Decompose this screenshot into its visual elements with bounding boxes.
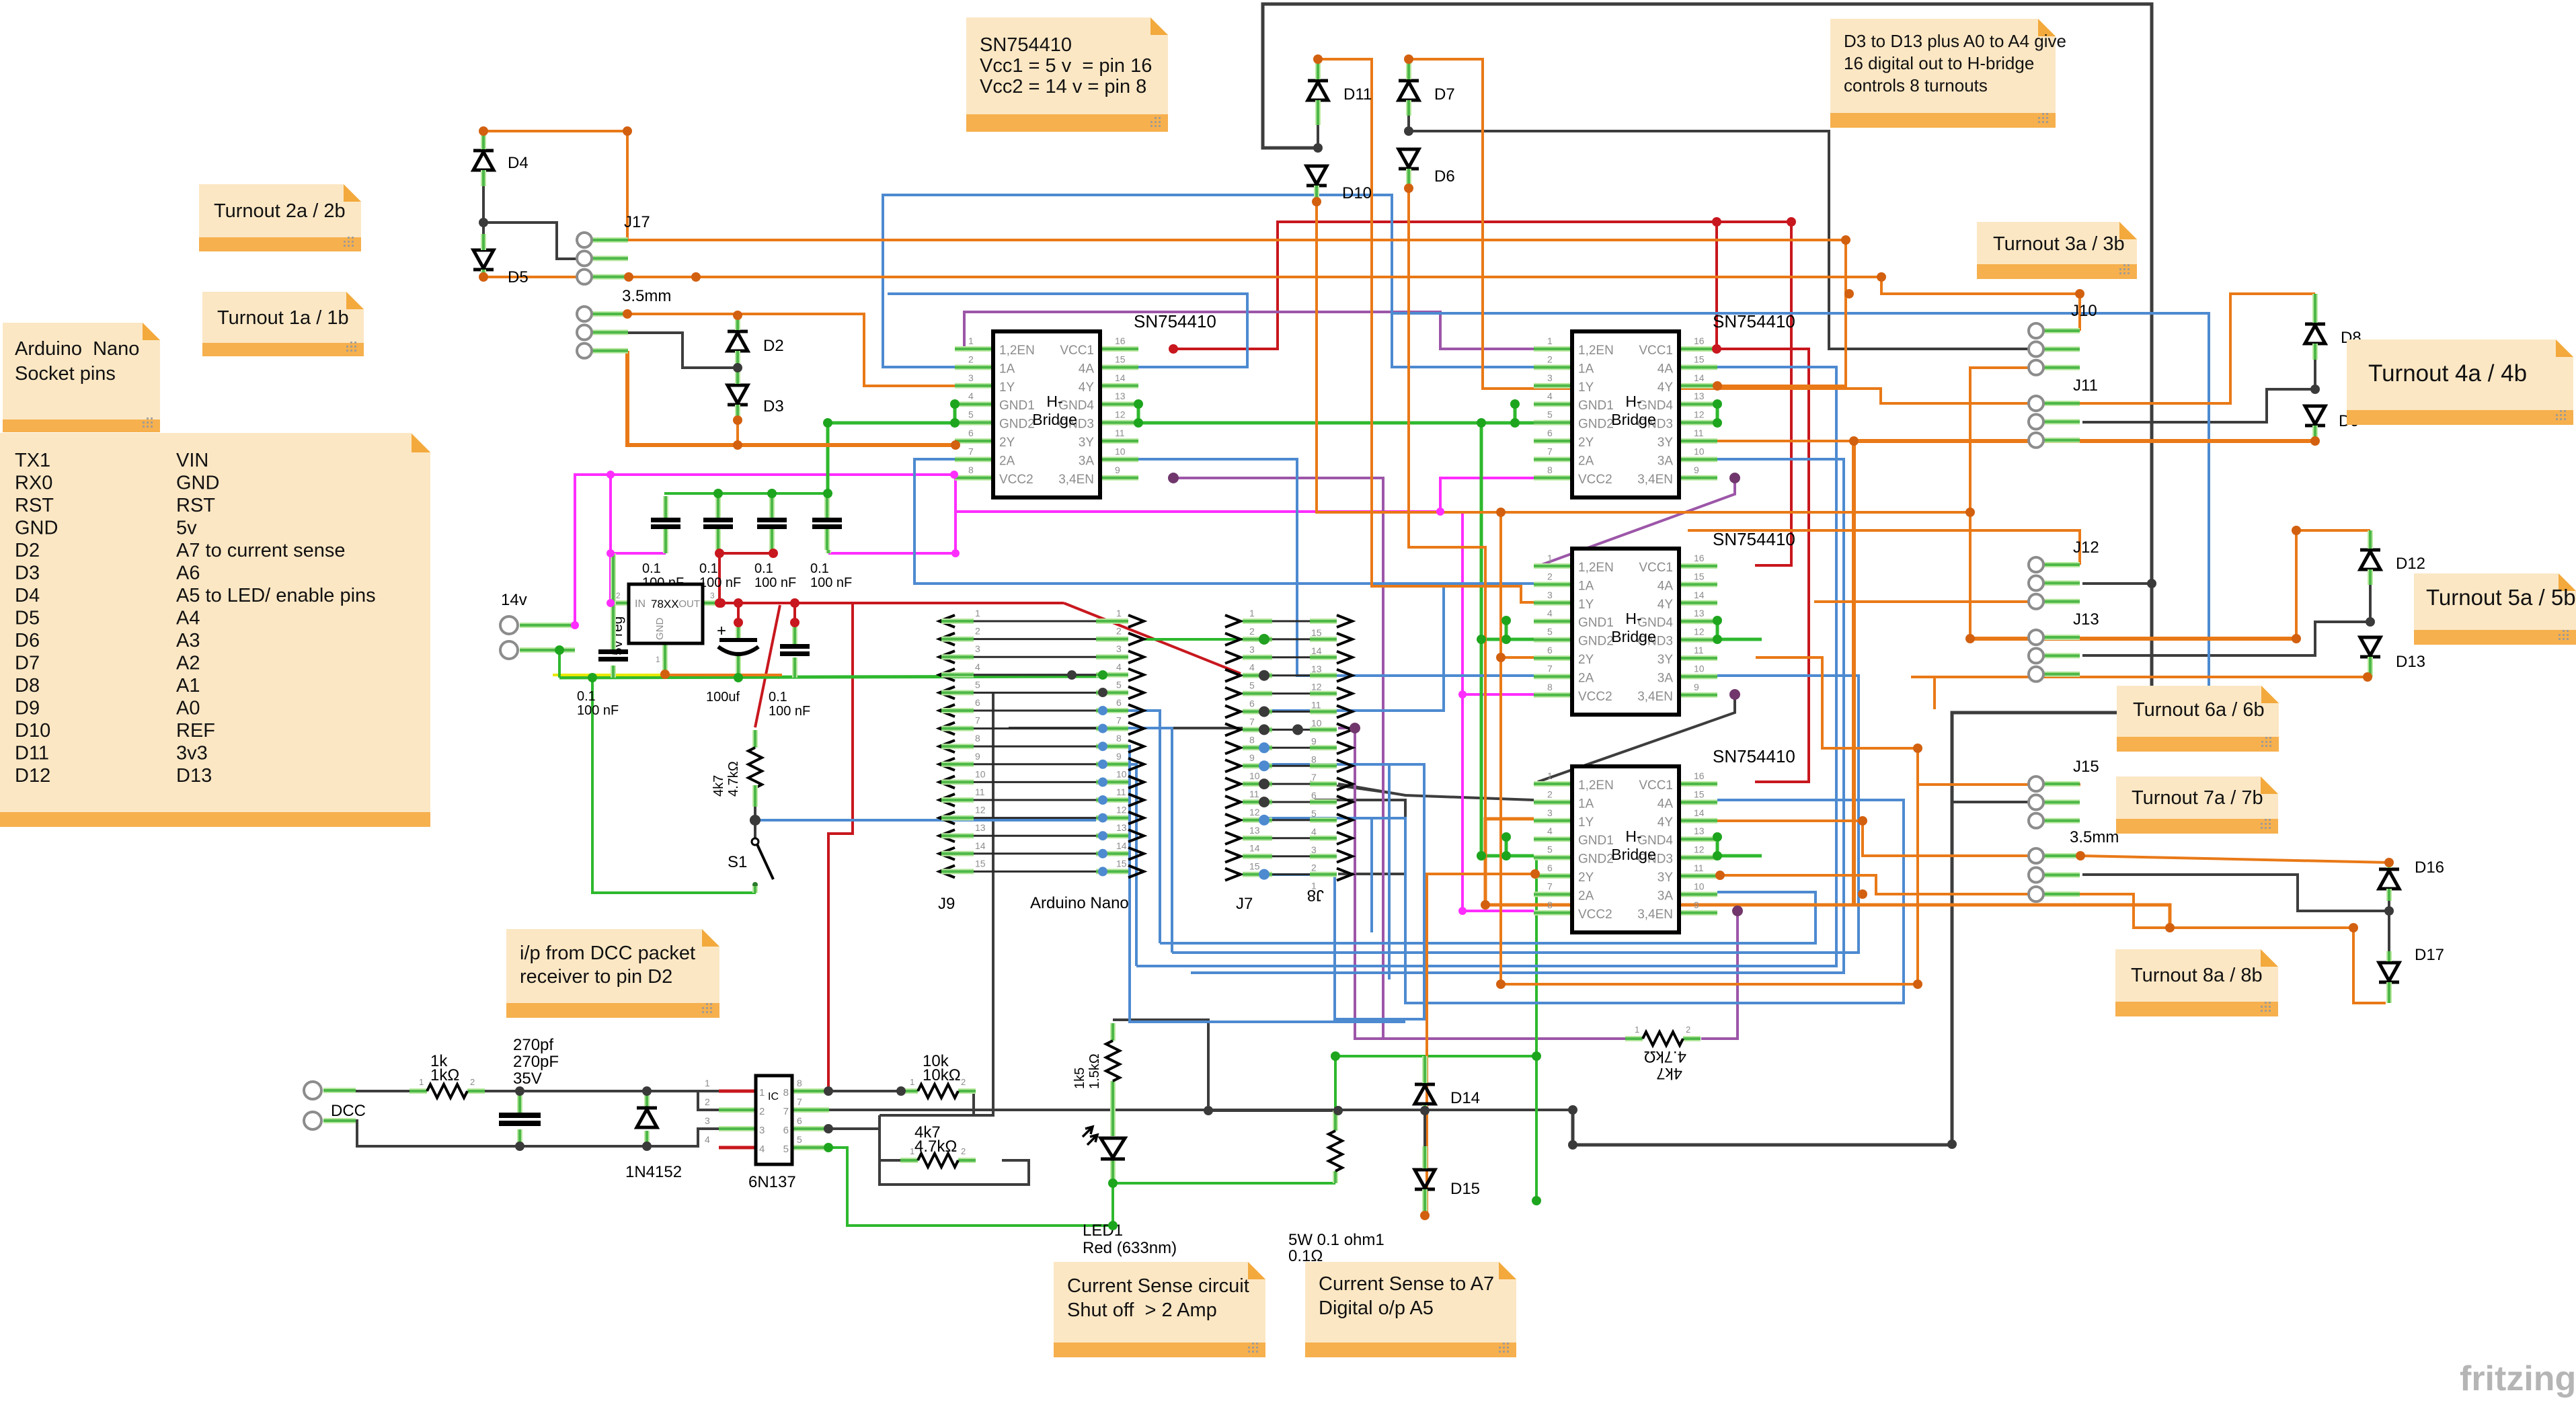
svg-text:100 nF: 100 nF: [754, 575, 796, 590]
junction dots red: [716, 598, 726, 608]
svg-text:5: 5: [1249, 680, 1255, 691]
capacitor C1 100nF: [642, 496, 684, 590]
wire green 14v pin2 drop: [558, 650, 561, 678]
wire blue S1 junction run: [755, 819, 1096, 822]
svg-text:8: 8: [783, 1087, 789, 1098]
wire red VCC1 IC2 drop: [1717, 222, 1755, 349]
wire red branch to cap C6: [793, 603, 796, 623]
svg-text:15: 15: [975, 858, 986, 869]
svg-text:2: 2: [705, 1096, 710, 1107]
diode D14 D15 stubs: [1422, 1056, 1428, 1083]
diode D10: [1306, 166, 1372, 202]
op-amp U6 SN754410 H-bridge 4: [1534, 766, 1717, 932]
wire red VCC1 IC4 drop: [1755, 349, 1809, 782]
svg-text:Shut off > 2 Amp: Shut off > 2 Amp: [1067, 1299, 1217, 1321]
svg-text:2Y: 2Y: [1578, 871, 1594, 885]
svg-text:2: 2: [961, 1146, 966, 1156]
svg-text:10: 10: [1116, 768, 1127, 779]
note Current Sense circuit: [1054, 1262, 1265, 1357]
svg-text:14: 14: [1249, 843, 1260, 854]
svg-text:3: 3: [1547, 590, 1553, 600]
wire blue J7 pin9 run: [1266, 764, 1389, 979]
svg-text:A6: A6: [176, 563, 200, 584]
wire green GND IC4 right: [1717, 837, 1762, 856]
svg-text:SN754410: SN754410: [1713, 311, 1795, 331]
wire blue IC4 3A bottom loop: [1160, 892, 1816, 943]
svg-text:12: 12: [1115, 409, 1126, 420]
svg-text:8: 8: [1311, 754, 1317, 764]
svg-text:12: 12: [1694, 844, 1705, 855]
capacitor drops: [663, 550, 668, 553]
svg-text:1: 1: [1249, 608, 1255, 618]
svg-text:4Y: 4Y: [1079, 381, 1095, 395]
capacitor C6 100nF: [769, 623, 810, 719]
svg-text:D4: D4: [508, 154, 529, 172]
wire orange D5 to J10 pin1: [483, 277, 2080, 331]
svg-text:13: 13: [1694, 391, 1705, 401]
svg-text:12: 12: [1694, 409, 1705, 420]
wire orange J12 pin3 run: [1814, 600, 2080, 603]
svg-text:A4: A4: [176, 608, 200, 629]
svg-text:3Y: 3Y: [1657, 436, 1674, 450]
wire magenta IC3 VCC2 drop: [1462, 512, 1534, 694]
svg-text:5v: 5v: [176, 518, 197, 539]
svg-text:4: 4: [1547, 608, 1553, 618]
svg-text:J17: J17: [624, 213, 650, 231]
svg-text:VCC2: VCC2: [1578, 473, 1612, 487]
svg-text:receiver to pin D2: receiver to pin D2: [520, 966, 672, 988]
wire blue IC3 1A to J7 pin6: [1264, 584, 1534, 711]
svg-text:2Y: 2Y: [999, 436, 1015, 450]
wire orange IC2 3Y run: [1717, 440, 1854, 442]
wire red cap2 to cap3 link: [719, 552, 773, 555]
wire black D5 junction to J17 pin2: [483, 223, 596, 259]
svg-text:6: 6: [1547, 428, 1553, 438]
diode D11: [1308, 81, 1372, 104]
wire red branch to 100uf: [737, 603, 740, 623]
svg-text:D4: D4: [15, 585, 40, 606]
svg-text:5: 5: [1547, 844, 1553, 855]
svg-text:1Y: 1Y: [1578, 598, 1594, 612]
svg-text:3: 3: [1547, 372, 1553, 383]
svg-text:10: 10: [1694, 663, 1705, 674]
capacitor C2 100nF: [699, 496, 741, 590]
svg-text:4A: 4A: [1657, 362, 1674, 376]
svg-text:2: 2: [759, 1106, 765, 1117]
wire green GND drop to capacitor rail: [826, 423, 830, 493]
svg-text:8: 8: [975, 733, 980, 744]
wire red cap2 drop: [718, 553, 721, 603]
svg-text:Bridge: Bridge: [1611, 628, 1655, 645]
svg-text:4k7: 4k7: [1656, 1064, 1682, 1082]
svg-text:2A: 2A: [1578, 671, 1594, 685]
wire yellow under rail: [553, 674, 664, 676]
svg-text:10: 10: [1694, 446, 1705, 456]
svg-text:7: 7: [1116, 715, 1122, 726]
svg-text:Turnout 2a / 2b: Turnout 2a / 2b: [214, 200, 346, 222]
optocoupler IC 6N137: [705, 1076, 829, 1191]
svg-text:9: 9: [1249, 752, 1255, 763]
svg-text:IC: IC: [768, 1091, 779, 1103]
svg-text:3A: 3A: [1657, 454, 1674, 468]
svg-text:1A: 1A: [1578, 797, 1594, 811]
svg-text:D6: D6: [1434, 167, 1455, 186]
connector J15: [2029, 758, 2099, 828]
svg-text:4A: 4A: [1079, 362, 1095, 376]
diode D1 1N4152: [625, 1094, 682, 1181]
svg-text:1k5: 1k5: [1072, 1068, 1087, 1089]
wire black J9 pin5 down to resistor loop: [880, 692, 993, 1115]
svg-text:A7 to current sense: A7 to current sense: [176, 540, 345, 561]
LED LED1 red: [1083, 1096, 1177, 1257]
svg-text:9: 9: [1694, 899, 1699, 910]
svg-text:3A: 3A: [1657, 671, 1674, 685]
svg-text:7: 7: [1547, 446, 1553, 456]
wire green GND vertical feeder: [1480, 423, 1483, 856]
wire purple IC1 1,2EN feed: [955, 312, 1534, 349]
svg-text:1: 1: [419, 1077, 424, 1087]
svg-text:1: 1: [1635, 1025, 1639, 1035]
svg-text:D9: D9: [15, 698, 40, 719]
svg-text:Bridge: Bridge: [1611, 411, 1655, 428]
svg-text:Digital o/p A5: Digital o/p A5: [1319, 1297, 1434, 1319]
svg-text:VCC2: VCC2: [1578, 690, 1612, 704]
wire black J8 to IC4 1A diagonal: [1338, 784, 1534, 800]
svg-text:6: 6: [1311, 790, 1317, 801]
wire orange IC3 3Y to J15 feeder: [1756, 657, 1918, 748]
svg-text:VCC1: VCC1: [1639, 561, 1673, 575]
svg-text:2: 2: [1547, 571, 1553, 582]
voltage regulator U2 78XX: [610, 584, 721, 673]
svg-text:8: 8: [1116, 733, 1122, 744]
svg-text:16: 16: [1115, 335, 1126, 346]
op-amp U5 SN754410 H-bridge 3: [1534, 549, 1717, 715]
wire orange IC4 3Y to 3.5mm pin3: [1720, 875, 2080, 894]
wire orange D10 to IC3 2Y: [1317, 202, 1534, 657]
svg-text:5: 5: [975, 679, 980, 690]
wire orange J10 pin3 feeder: [1970, 368, 2080, 639]
svg-text:Turnout 4a / 4b: Turnout 4a / 4b: [2368, 360, 2527, 387]
svg-text:13: 13: [1249, 825, 1260, 836]
svg-text:270pF: 270pF: [513, 1053, 559, 1071]
svg-text:Current Sense circuit: Current Sense circuit: [1067, 1275, 1249, 1297]
svg-text:14: 14: [1311, 645, 1322, 656]
resistor R7 1k5: [1072, 1023, 1120, 1098]
wire blue J9 bundle: [1105, 746, 1405, 1022]
svg-text:J10: J10: [2071, 302, 2097, 320]
diode D14: [1415, 1084, 1480, 1107]
svg-text:12: 12: [1311, 682, 1322, 692]
svg-text:6: 6: [1547, 863, 1553, 873]
wire blue IC2 3A bottom loop: [1191, 459, 1844, 973]
resistor R2 4k7: [711, 730, 762, 805]
wire red diagonal to resistor 4k7: [755, 605, 780, 727]
svg-text:5: 5: [1547, 409, 1553, 420]
svg-text:5: 5: [783, 1144, 789, 1155]
svg-text:GND: GND: [176, 473, 219, 494]
svg-text:4.7kΩ: 4.7kΩ: [726, 761, 741, 797]
wire black DCC input top: [356, 1090, 425, 1092]
wire purple IC4 3,4EN to resistor 4k7: [1701, 911, 1738, 1039]
svg-text:14: 14: [975, 840, 986, 851]
svg-text:5W 0.1 ohm1: 5W 0.1 ohm1: [1288, 1231, 1384, 1249]
svg-text:8: 8: [1547, 465, 1553, 475]
wire red 78XX OUT rail: [721, 602, 1064, 604]
wire magenta 14v to VCC2 rail: [575, 475, 954, 625]
svg-text:Bridge: Bridge: [1032, 411, 1077, 428]
note Arduino Nano Socket pins: [3, 323, 160, 432]
svg-text:15: 15: [1249, 861, 1260, 872]
connector 3.5mm bottom: [2029, 828, 2119, 902]
svg-text:4Y: 4Y: [1657, 598, 1674, 612]
svg-text:7: 7: [975, 715, 980, 726]
capacitor bank rail: [664, 492, 828, 495]
diode D9: [2305, 406, 2359, 430]
diode D2 D3 stubs: [735, 315, 740, 330]
svg-text:D3: D3: [15, 563, 40, 584]
svg-text:2Y: 2Y: [1578, 653, 1594, 667]
svg-text:12: 12: [975, 805, 986, 815]
svg-text:VIN: VIN: [176, 450, 208, 471]
connector 3.5mm top: [577, 287, 671, 358]
svg-text:3: 3: [1116, 643, 1122, 654]
svg-text:3,4EN: 3,4EN: [1637, 473, 1673, 487]
wire magenta IC2 VCC2 drop: [1440, 478, 1534, 512]
note D3 to D13: [1830, 19, 2066, 128]
wire red drop to 6N137 pin8: [828, 603, 853, 1091]
svg-text:9: 9: [1694, 682, 1699, 692]
svg-text:13: 13: [1115, 391, 1126, 401]
wire green GND IC1 right to IC2: [1138, 422, 1534, 425]
svg-text:13: 13: [1694, 826, 1705, 836]
diode D10 D11 stubs: [1315, 59, 1321, 79]
svg-text:11: 11: [1116, 787, 1126, 797]
svg-text:D6: D6: [15, 630, 40, 651]
svg-text:D13: D13: [176, 765, 212, 787]
svg-text:15: 15: [1694, 354, 1705, 364]
resistor R6 4k7 inverted: [1625, 1025, 1701, 1045]
svg-text:6: 6: [968, 428, 974, 438]
svg-text:Vcc1 = 5 v = pin 16: Vcc1 = 5 v = pin 16: [980, 55, 1152, 77]
connector J7 J8 header: [1225, 608, 1352, 913]
svg-text:1Y: 1Y: [1578, 381, 1594, 395]
svg-text:14: 14: [1115, 372, 1126, 383]
wire orange D3 drop: [736, 420, 739, 445]
svg-text:16 digital out to H-bridge: 16 digital out to H-bridge: [1844, 53, 2034, 73]
connector DCC: [304, 1082, 366, 1129]
svg-text:3: 3: [968, 372, 974, 383]
svg-text:2: 2: [1311, 863, 1317, 873]
svg-text:6: 6: [1547, 645, 1553, 655]
diode D5: [473, 250, 529, 286]
svg-text:4.7kΩ: 4.7kΩ: [1644, 1047, 1686, 1066]
svg-text:100 nF: 100 nF: [810, 575, 852, 590]
wire black bottom run to J15 area: [1573, 1110, 1952, 1145]
op-amp U4 SN754410 H-bridge 2: [1534, 331, 1717, 497]
svg-text:0.1: 0.1: [699, 561, 718, 576]
svg-text:3,4EN: 3,4EN: [1058, 473, 1094, 487]
svg-text:100uf: 100uf: [706, 690, 740, 705]
svg-text:RST: RST: [15, 495, 54, 516]
svg-text:A1: A1: [176, 675, 200, 696]
wire orange mid vertical to J15 lane: [1499, 657, 1502, 984]
svg-text:3: 3: [1311, 844, 1317, 855]
note Turnout 7a 7b: [2116, 776, 2278, 834]
svg-text:controls 8 turnouts: controls 8 turnouts: [1844, 75, 1988, 95]
diode D4 stubs: [481, 131, 486, 149]
svg-text:D5: D5: [508, 268, 529, 286]
wire black J12 pin2 to bus: [2082, 582, 2152, 585]
svg-text:GND1: GND1: [1578, 616, 1614, 630]
svg-text:SN754410: SN754410: [1134, 311, 1216, 331]
wire blue IC1 4A loop: [888, 294, 1247, 367]
resistor R5 4k7: [900, 1123, 976, 1167]
svg-text:D17: D17: [2415, 946, 2444, 964]
wire black 6N137 pin7 to current sense: [828, 1109, 1573, 1111]
svg-text:2Y: 2Y: [1578, 436, 1594, 450]
svg-text:Turnout 6a / 6b: Turnout 6a / 6b: [2133, 699, 2265, 721]
wire green GND rail IC1 left: [828, 422, 955, 425]
svg-text:5: 5: [797, 1134, 802, 1145]
wire black resistor loop left leg: [880, 1115, 1029, 1185]
svg-text:i/p from DCC packet: i/p from DCC packet: [520, 943, 695, 964]
note SN754410 Vcc: [966, 17, 1168, 132]
svg-text:4: 4: [1116, 662, 1122, 672]
wire black resistor 10k loop: [828, 1090, 901, 1092]
svg-text:35V: 35V: [513, 1070, 542, 1088]
svg-text:7: 7: [1547, 663, 1553, 674]
svg-text:14: 14: [1694, 372, 1705, 383]
svg-text:15: 15: [1694, 571, 1705, 582]
wire blue IC1 1A loop: [883, 195, 1534, 367]
svg-text:D10: D10: [15, 720, 50, 742]
wire black J13 pin2 to D12/D13 junction: [2082, 622, 2370, 655]
svg-text:3: 3: [705, 1115, 710, 1126]
svg-text:2A: 2A: [999, 454, 1015, 468]
svg-text:J7: J7: [1236, 895, 1253, 913]
capacitor C4 100nF: [810, 496, 852, 590]
svg-text:GND2: GND2: [999, 417, 1035, 432]
svg-text:J11: J11: [2073, 376, 2098, 395]
svg-text:RX0: RX0: [15, 473, 52, 494]
svg-text:8: 8: [1249, 734, 1255, 745]
svg-text:2: 2: [1249, 626, 1255, 637]
wire orange J12 pin1 feeder: [1688, 530, 2080, 565]
connector J11: [2029, 376, 2098, 448]
svg-text:1kΩ: 1kΩ: [430, 1066, 459, 1084]
svg-text:6: 6: [797, 1115, 802, 1126]
svg-text:D7: D7: [15, 653, 40, 674]
svg-text:DCC: DCC: [331, 1102, 366, 1120]
wire blue J7 pin12 run: [1266, 818, 1372, 932]
note Turnout 3a 3b: [1977, 222, 2137, 279]
wire orange D4 to J17 pin1 to IC2 4Y: [483, 131, 1846, 386]
svg-text:+: +: [717, 622, 726, 640]
capacitor C7 100nF input: [577, 553, 628, 718]
diode D4: [473, 151, 529, 172]
wire green S1 to rail: [592, 678, 756, 893]
wire green 6N137 pin5 to LED: [828, 1148, 1113, 1226]
svg-text:GND: GND: [654, 618, 666, 641]
svg-text:11: 11: [975, 787, 985, 797]
svg-text:J12: J12: [2073, 538, 2099, 557]
note pin list: [0, 433, 430, 827]
svg-text:78XX: 78XX: [651, 598, 679, 610]
svg-text:15: 15: [1116, 858, 1127, 869]
svg-text:100 nF: 100 nF: [769, 704, 810, 719]
svg-text:D5: D5: [15, 608, 40, 629]
wire orange vertical to bottom bus: [1852, 441, 1856, 905]
svg-text:6: 6: [1249, 698, 1255, 709]
diode D13: [2360, 637, 2425, 671]
svg-text:D13: D13: [2396, 653, 2425, 671]
wire green current sense to A7: [1425, 1055, 1536, 1057]
svg-text:15: 15: [1311, 627, 1322, 638]
svg-text:14: 14: [1694, 590, 1705, 600]
svg-text:REF: REF: [176, 720, 215, 742]
svg-text:14: 14: [1694, 807, 1705, 818]
svg-text:3A: 3A: [1657, 889, 1674, 903]
wire orange J13 pin1 thick: [1970, 637, 2296, 641]
wire orange mid feeder: [1501, 511, 1970, 514]
junction dots purple: [1168, 473, 1179, 483]
capacitor C8 270pF: [499, 1036, 559, 1146]
wire orange D7 to J11 pin1 to D8: [1409, 59, 2315, 403]
svg-text:H-: H-: [1625, 393, 1641, 410]
svg-text:12: 12: [1249, 807, 1260, 817]
wire green J9 pin2 to J7 pin2: [1143, 638, 1264, 641]
svg-text:A3: A3: [176, 630, 200, 651]
svg-text:2: 2: [1686, 1025, 1690, 1035]
svg-text:3: 3: [710, 591, 715, 600]
svg-text:1: 1: [975, 608, 980, 618]
svg-text:4Y: 4Y: [1657, 815, 1674, 830]
wire green LED drop: [1111, 1183, 1114, 1226]
wire orange IC2 2Y run: [954, 441, 957, 445]
wire blue IC1 3A to IC3 2A: [1138, 459, 1534, 676]
svg-text:TX1: TX1: [15, 450, 50, 471]
svg-text:fritzing: fritzing: [2460, 1359, 2576, 1398]
connector J9 header: [938, 608, 1144, 913]
svg-text:4: 4: [705, 1134, 710, 1145]
svg-text:13: 13: [975, 822, 986, 833]
svg-text:5: 5: [1116, 679, 1122, 690]
wire blue IC2 4A bottom loop: [1136, 367, 1836, 966]
svg-text:9: 9: [1311, 735, 1317, 746]
svg-text:12: 12: [1116, 805, 1127, 815]
diode D6 D7 stubs: [1406, 59, 1411, 79]
wire black shunt to 1k5: [1208, 1109, 1338, 1112]
svg-text:SN754410: SN754410: [1713, 529, 1795, 549]
svg-text:IN: IN: [635, 598, 646, 610]
diode D16 D17 stubs: [2386, 863, 2392, 868]
wire orange 78XX GND to rail: [664, 674, 782, 676]
svg-text:1: 1: [1116, 608, 1122, 618]
svg-text:16: 16: [1694, 770, 1705, 781]
wire black 3.5mm bottom pin2 to D16/D17 junction: [2082, 875, 2389, 911]
svg-text:GND1: GND1: [1578, 399, 1614, 413]
wire black DCC input bottom: [356, 1121, 719, 1146]
wire blue J9 vertical feeders: [1105, 711, 1160, 943]
svg-text:0.1: 0.1: [810, 561, 829, 576]
wire orange J11 pin3 thick to D9: [1854, 439, 2315, 443]
svg-text:1: 1: [910, 1077, 914, 1087]
svg-text:0.1: 0.1: [769, 690, 787, 705]
note Turnout 2a 2b: [199, 184, 361, 251]
note Turnout 5a 5b: [2414, 573, 2576, 645]
wire black diode 1N4152 to 6N137 pin2: [698, 1091, 719, 1110]
wire orange J13 pin3 to D13: [1911, 676, 2368, 678]
